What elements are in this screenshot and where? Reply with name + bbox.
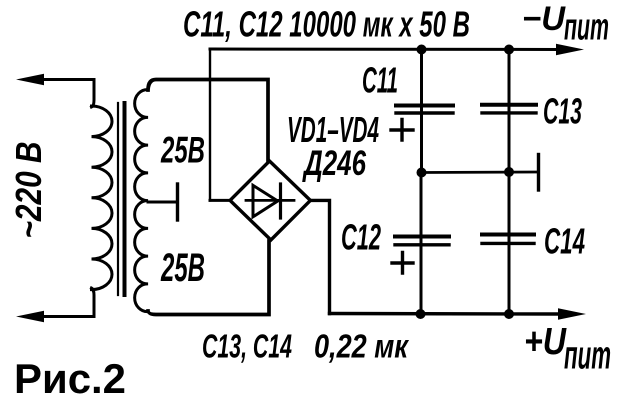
svg-text:С11: С11 (362, 60, 398, 101)
wire: secondary center tap (148, 201, 176, 204)
wire: primary top lead (42, 80, 94, 108)
junction dot middle rail right (504, 167, 514, 177)
transformer T1 primary winding (92, 106, 113, 290)
wire: C12 branch vertical (420, 173, 423, 314)
svg-text:+U: +U (524, 321, 567, 363)
diode symbol axis inside bridge (246, 199, 294, 202)
plus sign C11 (391, 120, 413, 141)
wire: bottom rail +Upit (330, 312, 559, 316)
arrowhead: mains top-left (16, 74, 44, 85)
arrowhead: +Upit (558, 308, 586, 319)
wire: C11/C12 branch vertical (420, 50, 423, 174)
svg-text:С13: С13 (543, 91, 582, 132)
junction dot top rail left (417, 45, 427, 55)
wire: C14 branch vertical (508, 172, 511, 314)
capacitor C13 top plate (482, 103, 536, 107)
junction dot top rail right (504, 45, 514, 55)
arrowhead: -Upit (556, 44, 584, 55)
junction dot bottom rail right (504, 309, 514, 319)
wire: C13 branch vertical (508, 50, 511, 173)
svg-text:25В: 25В (160, 246, 205, 290)
wire: secondary bottom lead to bridge bottom (148, 241, 269, 315)
capacitor C11 top plate (396, 104, 453, 108)
svg-text:С13, С14: С13, С14 (202, 328, 292, 365)
wire: primary bottom lead (42, 288, 94, 317)
capacitor C14 top plate (482, 233, 534, 237)
wire: top rail -Upit (210, 48, 560, 52)
svg-text:−U: −U (522, 0, 566, 38)
junction dot middle rail left (417, 168, 427, 178)
svg-text:0,22 мк: 0,22 мк (314, 328, 410, 365)
diode symbol triangle (253, 185, 278, 216)
svg-text:С12: С12 (341, 217, 381, 258)
arrowhead: mains bottom-left (16, 311, 44, 322)
svg-text:Рис.2: Рис.2 (14, 355, 126, 402)
junction dot bottom rail left (416, 309, 426, 319)
terminal: center tap bar (176, 184, 179, 220)
transformer T1 secondary winding (135, 90, 148, 312)
plus sign C12 (392, 253, 413, 274)
transformer core line thick (123, 103, 127, 295)
capacitor C12 bottom plate (395, 243, 449, 246)
capacitor C14 bottom plate (482, 242, 534, 245)
capacitor C11 bottom plate (396, 111, 453, 114)
svg-text:С11, С12 10000 мк x 50 В: С11, С12 10000 мк x 50 В (183, 4, 470, 45)
terminal: middle rail bar (537, 155, 540, 191)
svg-text:пит: пит (564, 334, 611, 378)
diode symbol cathode bar (279, 184, 282, 218)
wire: bridge minus output stub to left riser (210, 199, 230, 202)
capacitor C13 bottom plate (482, 111, 536, 114)
wire: middle rail (422, 171, 537, 174)
transformer core line thin (117, 103, 119, 295)
wire: minus riser up to top rail (209, 49, 211, 200)
capacitor C12 top plate (395, 235, 449, 239)
svg-text:Д246: Д246 (302, 144, 367, 183)
wire: secondary top lead to bridge top (148, 80, 268, 161)
svg-text:С14: С14 (544, 221, 585, 262)
svg-text:~220 В: ~220 В (8, 142, 49, 239)
svg-text:25В: 25В (160, 130, 205, 171)
bridge rectifier VD1-VD4 diamond (230, 161, 310, 240)
wire: bridge plus output stub and riser down (310, 200, 329, 313)
svg-text:пит: пит (564, 7, 609, 49)
